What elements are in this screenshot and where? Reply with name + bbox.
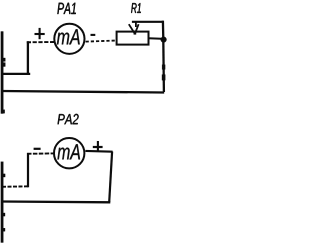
polarity minus (PA1 right) — [91, 34, 96, 36]
bus bar (left edge, top circuit) — [1, 32, 3, 114]
terminal tick on bus bar — [3, 228, 5, 231]
rheostat R1 body — [117, 32, 149, 45]
label R1 — [131, 3, 141, 13]
rheostat wiper arrow — [129, 21, 139, 35]
polarity plus (PA2 right) — [93, 141, 103, 151]
terminal tick on bus bar — [3, 213, 5, 216]
polarity minus (PA2 left) — [34, 148, 41, 150]
wire bus bar to corner (horizontal) — [2, 73, 31, 75]
terminal tick on bus bar — [3, 110, 4, 113]
blob on right vertical wire — [162, 75, 165, 81]
wire wiper to right (top) — [132, 21, 163, 23]
wire corner vertical — [27, 41, 29, 75]
wire ammeter PA2 to right corner — [85, 150, 112, 153]
wire ammeter PA1 to rheostat R1 — [86, 41, 117, 42]
ammeter PA1 face text mA — [57, 29, 80, 44]
wire corner to ammeter PA1 — [27, 41, 55, 43]
label PA1 — [57, 3, 75, 14]
junction dot — [161, 37, 167, 43]
wire right vertical upper — [162, 21, 165, 39]
ammeter PA1 — [54, 24, 84, 54]
return wire (top circuit bottom) — [2, 91, 165, 93]
wire rheostat right terminal to junction — [148, 37, 161, 39]
return wire (bottom circuit) — [2, 200, 111, 203]
label PA2 — [58, 114, 79, 124]
bus bar (left edge, bottom circuit) — [1, 162, 3, 243]
ammeter PA2 face text mA — [58, 144, 81, 159]
blob on right vertical wire — [162, 65, 165, 70]
terminal tick on bus bar — [3, 58, 6, 61]
wire right vertical lower — [162, 40, 165, 92]
polarity plus (PA1 left) — [35, 28, 45, 39]
terminal tick on bus bar — [3, 63, 6, 67]
wire corner to ammeter PA2 — [27, 152, 54, 154]
wire bus bar to corner (bottom circuit) — [2, 185, 29, 188]
wire corner vertical (bottom circuit) — [27, 153, 29, 187]
ammeter PA2 — [54, 138, 84, 168]
terminal tick on bus bar — [3, 174, 5, 177]
wire right vertical (bottom circuit) — [109, 152, 112, 203]
